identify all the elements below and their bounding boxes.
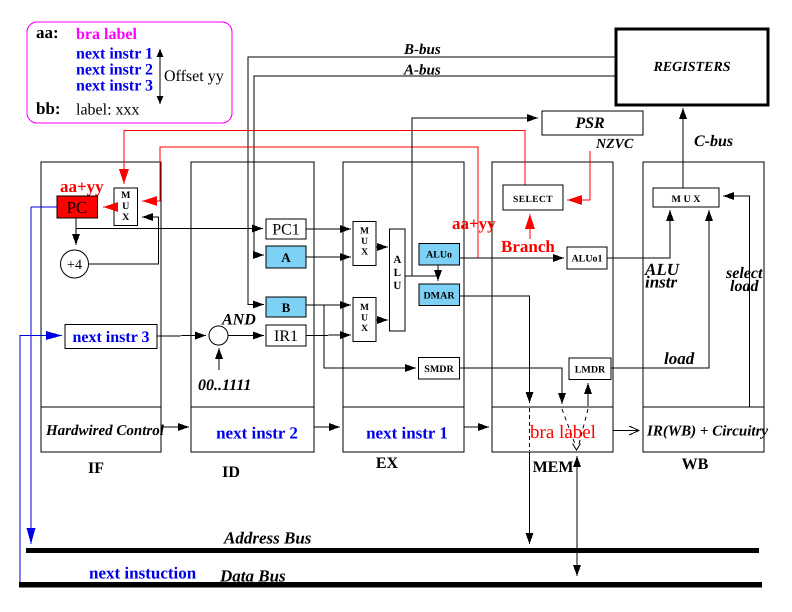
- svg-text:SMDR: SMDR: [424, 364, 454, 375]
- svg-text:B-bus: B-bus: [403, 42, 441, 58]
- svg-text:ID: ID: [222, 464, 240, 481]
- svg-text:DMAR: DMAR: [423, 291, 455, 302]
- svg-text:M: M: [360, 227, 369, 237]
- svg-text:X: X: [361, 248, 368, 258]
- svg-text:U: U: [122, 201, 129, 212]
- svg-text:X: X: [122, 212, 130, 223]
- svg-text:IR(WB) + Circuitry: IR(WB) + Circuitry: [646, 424, 768, 440]
- svg-text:load: load: [730, 278, 759, 295]
- svg-text:IR1: IR1: [274, 328, 298, 345]
- svg-text:MEM: MEM: [533, 459, 574, 476]
- svg-text:AND: AND: [221, 312, 256, 329]
- svg-text:aa+yy: aa+yy: [452, 214, 496, 233]
- svg-text:00..1111: 00..1111: [198, 377, 251, 394]
- svg-text:IF: IF: [88, 460, 104, 477]
- svg-text:WB: WB: [682, 456, 709, 473]
- svg-text:A-bus: A-bus: [403, 63, 441, 79]
- svg-text:C-bus: C-bus: [694, 133, 733, 150]
- svg-text:U: U: [393, 280, 401, 292]
- svg-text:NZVC: NZVC: [595, 137, 634, 152]
- svg-text:bra label: bra label: [76, 26, 137, 43]
- svg-text:REGISTERS: REGISTERS: [652, 60, 730, 75]
- svg-text:instr: instr: [645, 273, 678, 292]
- svg-text:L: L: [394, 267, 401, 279]
- svg-text:aa:: aa:: [36, 23, 59, 42]
- svg-text:+4: +4: [67, 258, 82, 273]
- svg-text:A: A: [281, 250, 291, 265]
- svg-text:bra label: bra label: [530, 422, 596, 443]
- svg-text:next instuction: next instuction: [89, 564, 197, 583]
- svg-text:next instr 3: next instr 3: [76, 78, 153, 95]
- svg-text:next instr 2: next instr 2: [216, 424, 298, 443]
- svg-text:M: M: [121, 190, 131, 201]
- svg-text:B: B: [282, 300, 291, 315]
- svg-text:bb:: bb:: [36, 99, 61, 118]
- svg-text:U: U: [361, 314, 368, 324]
- svg-text:PC1: PC1: [272, 222, 300, 239]
- svg-text:Data Bus: Data Bus: [219, 567, 286, 586]
- svg-text:load: load: [664, 349, 695, 368]
- svg-text:M U X: M U X: [672, 194, 702, 205]
- svg-text:A: A: [393, 254, 401, 266]
- svg-text:U: U: [361, 237, 368, 247]
- svg-text:ALUo: ALUo: [426, 250, 452, 261]
- svg-text:PC: PC: [67, 198, 88, 217]
- svg-text:aa+yy: aa+yy: [60, 177, 104, 196]
- svg-text:Hardwired Control: Hardwired Control: [45, 423, 165, 439]
- svg-text:Address Bus: Address Bus: [223, 529, 312, 548]
- svg-text:EX: EX: [376, 455, 399, 472]
- svg-text:PSR: PSR: [574, 115, 605, 132]
- svg-text:M: M: [360, 303, 369, 313]
- svg-text:next instr 2: next instr 2: [76, 62, 153, 79]
- svg-text:next instr 3: next instr 3: [72, 329, 149, 346]
- svg-text:next instr 1: next instr 1: [366, 424, 448, 443]
- svg-text:X: X: [361, 324, 368, 334]
- svg-text:label: xxx: label: xxx: [76, 102, 140, 119]
- svg-text:Branch: Branch: [501, 237, 555, 256]
- svg-text:SELECT: SELECT: [513, 195, 553, 205]
- svg-text:Offset yy: Offset yy: [164, 68, 224, 85]
- svg-text:LMDR: LMDR: [575, 365, 606, 376]
- svg-text:ALUo1: ALUo1: [571, 254, 602, 265]
- svg-text:next instr 1: next instr 1: [76, 46, 153, 63]
